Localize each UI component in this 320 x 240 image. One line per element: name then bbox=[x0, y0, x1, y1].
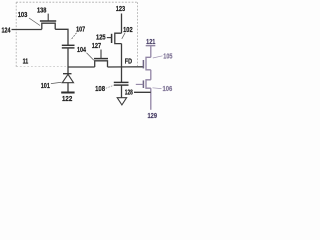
svg-text:138: 138 bbox=[37, 8, 46, 15]
svg-text:129: 129 bbox=[148, 113, 158, 120]
svg-text:105: 105 bbox=[163, 54, 172, 61]
leader 107 bbox=[71, 33, 77, 40]
transistor Q103 gate lead bbox=[47, 14, 49, 21]
transistor Q102 gate lead bbox=[107, 37, 112, 39]
transistor Q127 gate bar bbox=[94, 58, 108, 60]
ground terminal 122 bar bbox=[61, 92, 74, 94]
svg-text:101: 101 bbox=[41, 83, 50, 90]
svg-text:127: 127 bbox=[92, 43, 101, 50]
wire 123 vertical bbox=[121, 14, 123, 34]
leader 105 bbox=[153, 56, 163, 58]
transistor Q103 channel bump bbox=[42, 23, 55, 29]
wire 124 row bbox=[12, 29, 69, 45]
svg-text:122: 122 bbox=[62, 96, 72, 103]
leader 104 bbox=[87, 53, 94, 61]
svg-text:107: 107 bbox=[76, 27, 85, 34]
wire output 129 bbox=[150, 88, 152, 110]
transistor Q102 channel bump bbox=[115, 33, 122, 43]
wire 121 drain bbox=[150, 46, 152, 58]
leader 103 bbox=[29, 18, 40, 26]
wire Q102 source down to FD row and cap 108 bbox=[121, 44, 123, 83]
photodiode D101 anode bar bbox=[63, 73, 72, 75]
wire cap107 bottom bbox=[67, 48, 69, 67]
wire between Q105 and Q106 bbox=[150, 70, 152, 80]
wire cap108 bottom bbox=[121, 85, 123, 97]
photodiode D101 wire top bbox=[67, 67, 69, 74]
photodiode D101 wire bottom bbox=[67, 83, 69, 92]
transistor Q106 channel bump bbox=[146, 80, 151, 88]
leader 108 bbox=[106, 85, 114, 88]
leader 106 bbox=[153, 87, 162, 90]
svg-text:124: 124 bbox=[2, 27, 11, 34]
photodiode D101 triangle bbox=[62, 74, 73, 82]
svg-text:123: 123 bbox=[116, 6, 125, 13]
svg-text:128: 128 bbox=[125, 90, 133, 97]
svg-text:125: 125 bbox=[96, 35, 106, 42]
transistor Q127 channel bump bbox=[95, 61, 108, 67]
svg-text:121: 121 bbox=[146, 39, 155, 46]
transistor Q106 gate lead bbox=[136, 83, 144, 85]
leader 102 bbox=[122, 33, 125, 39]
transistor Q105 channel bump bbox=[146, 57, 151, 70]
svg-text:103: 103 bbox=[18, 12, 28, 19]
dashed box 11 bottom edge bbox=[16, 65, 66, 67]
ground triangle 128 bbox=[117, 98, 126, 105]
capacitor C107 bbox=[62, 45, 75, 48]
dashed box 11 bbox=[16, 2, 137, 67]
transistor Q103 gate bar bbox=[40, 20, 56, 22]
transistor Q105 gate bar bbox=[142, 60, 144, 68]
transistor Q102 gate bar bbox=[111, 34, 113, 43]
capacitor C108 bbox=[114, 82, 129, 85]
transistor Q106 gate bar bbox=[142, 80, 144, 88]
supply terminal 121 bar bbox=[146, 45, 156, 47]
svg-text:11: 11 bbox=[23, 59, 29, 66]
transistor Q127 gate lead bbox=[100, 50, 102, 59]
wire output row bbox=[134, 91, 151, 93]
svg-text:108: 108 bbox=[95, 86, 105, 93]
wire FD row bbox=[68, 66, 143, 68]
leader 101 bbox=[51, 82, 62, 83]
svg-text:FD: FD bbox=[125, 58, 132, 65]
svg-text:106: 106 bbox=[163, 86, 173, 93]
svg-text:104: 104 bbox=[77, 47, 86, 54]
